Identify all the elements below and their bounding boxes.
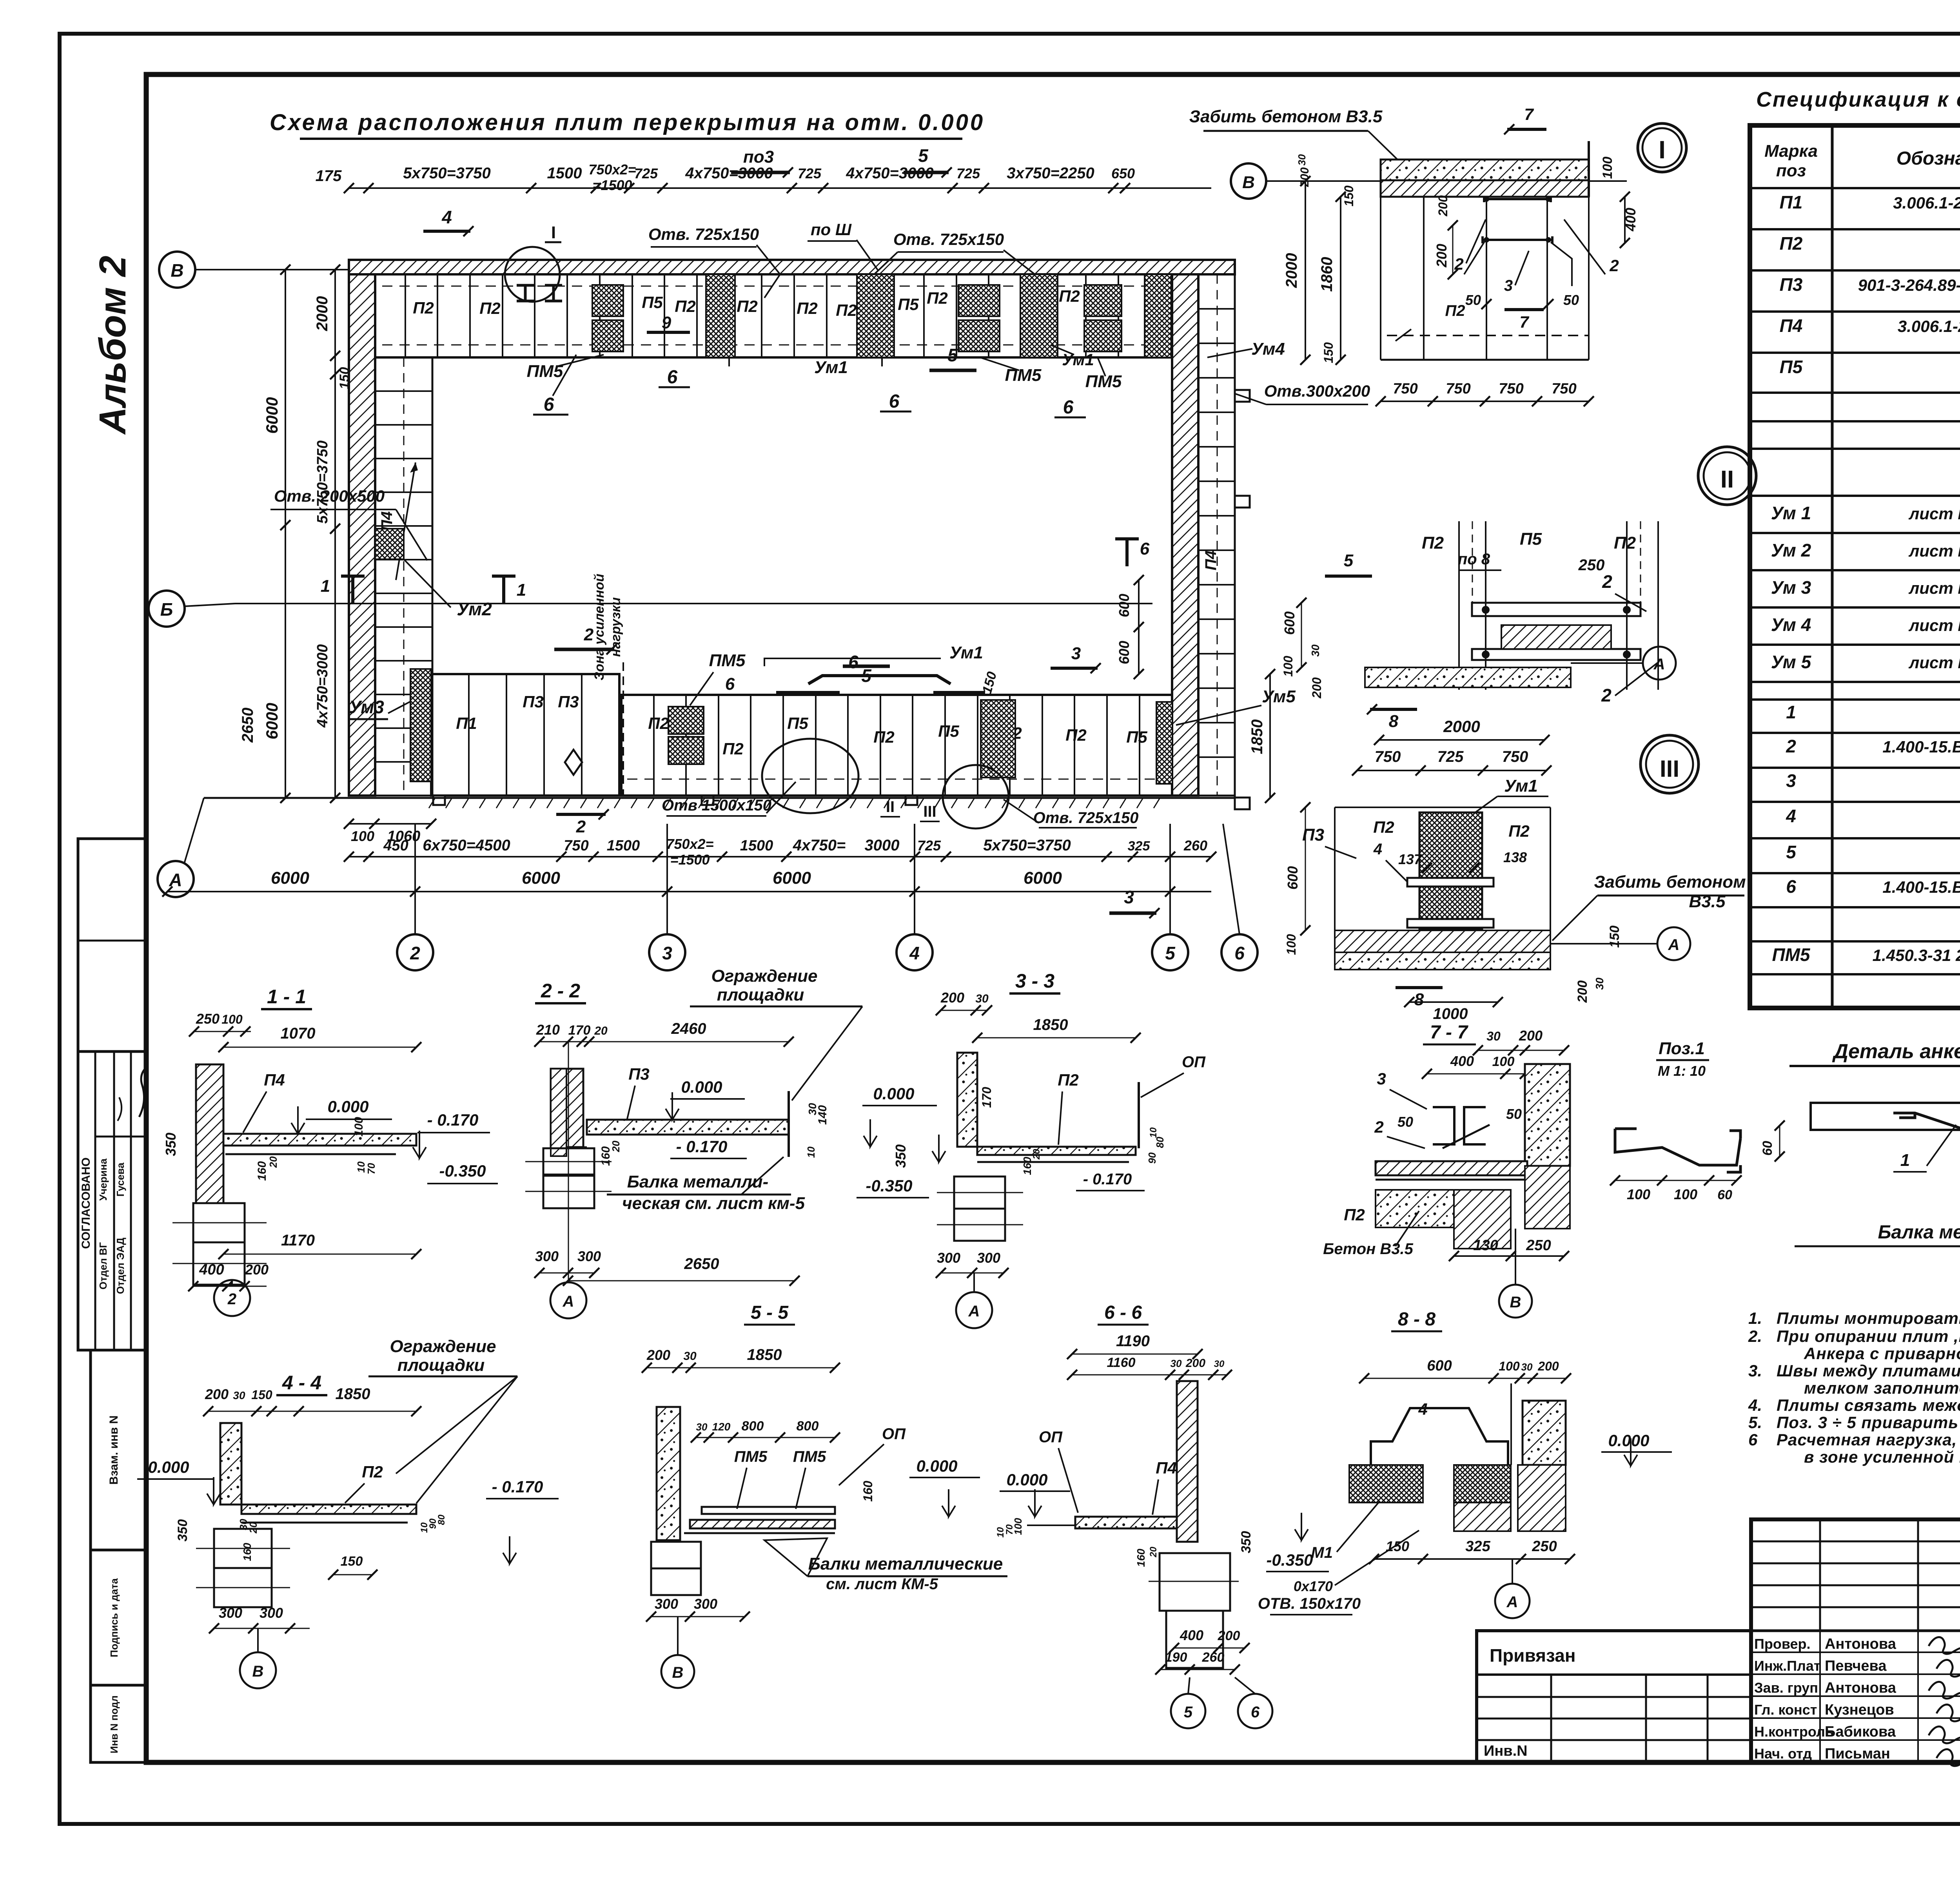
svg-text:мелком заполнителе.: мелком заполнителе. (1804, 1379, 1960, 1397)
detail III - axis circle А (1657, 927, 1690, 960)
section mark 1 mid (492, 576, 515, 604)
bracket 6 over П5 cell (808, 676, 951, 684)
svg-text:Ум 5: Ум 5 (1771, 652, 1812, 672)
svg-text:250: 250 (196, 1011, 220, 1027)
svg-text:П4: П4 (1780, 315, 1803, 336)
svg-text:0.000: 0.000 (873, 1084, 914, 1103)
svg-text:200: 200 (1185, 1357, 1205, 1370)
section 6-6 - axis circles 5 6 (1171, 1694, 1205, 1728)
svg-text:2 - 2: 2 - 2 (541, 980, 580, 1002)
svg-text:1500: 1500 (547, 165, 582, 182)
svg-text:2: 2 (1602, 571, 1612, 592)
svg-text:50: 50 (1506, 1106, 1522, 1122)
svg-text:Отв. 725х150: Отв. 725х150 (893, 230, 1004, 248)
svg-text:В: В (252, 1663, 264, 1680)
svg-text:ПМ5: ПМ5 (793, 1448, 826, 1465)
detail Поз.1 - dims (1615, 1180, 1737, 1181)
svg-text:Анкера с приварной их к: Анкера с приварной их к балкам согласно … (1804, 1344, 1960, 1363)
svg-text:Учерина: Учерина (97, 1158, 109, 1201)
svg-text:137: 137 (1398, 851, 1423, 867)
svg-text:4.: 4. (1748, 1396, 1762, 1414)
svg-text:I: I (551, 223, 556, 242)
svg-text:750: 750 (1446, 381, 1470, 397)
svg-text:750: 750 (1502, 748, 1528, 765)
svg-text:3.: 3. (1748, 1361, 1762, 1380)
svg-text:А: А (169, 870, 182, 890)
svg-text:3: 3 (662, 943, 672, 963)
svg-text:160: 160 (1135, 1548, 1147, 1567)
I-beam symbol near detail I (517, 285, 534, 301)
svg-text:см. лист КМ-5: см. лист КМ-5 (826, 1575, 938, 1593)
svg-text:1070: 1070 (281, 1025, 316, 1042)
axis circle 6 (1221, 934, 1258, 970)
svg-text:П2: П2 (675, 297, 696, 315)
svg-text:600: 600 (1116, 641, 1132, 664)
section mark 6 right wall (1115, 539, 1139, 566)
svg-text:210: 210 (536, 1022, 560, 1038)
svg-text:3.006.1-2.87.2-20: 3.006.1-2.87.2-20 (1893, 194, 1960, 212)
svg-text:В: В (672, 1664, 684, 1681)
svg-text:6: 6 (889, 391, 900, 412)
svg-text:100: 100 (1281, 656, 1295, 677)
plan - bottom band left part (431, 674, 619, 796)
svg-text:П3: П3 (628, 1065, 650, 1083)
svg-text:8: 8 (1414, 990, 1424, 1009)
svg-text:П5: П5 (1520, 529, 1542, 549)
section 7-7 - wall block (1525, 1064, 1570, 1166)
svg-text:П3: П3 (558, 692, 579, 711)
detail I - vertical edge lines (1380, 197, 1381, 360)
svg-text:П2: П2 (1780, 233, 1803, 254)
svg-text:0.000: 0.000 (681, 1078, 722, 1096)
section 7-7 - axis circle В (1499, 1285, 1532, 1318)
detail I - hatched slab band (1381, 160, 1589, 180)
svg-text:150: 150 (251, 1388, 272, 1402)
detail III - bottom dims (1409, 1001, 1498, 1003)
svg-text:ОП: ОП (1039, 1428, 1063, 1446)
detail I - bottom dim 750x4 (1381, 401, 1589, 402)
svg-text:901-3-264.89-КЖ.И.44.000: 901-3-264.89-КЖ.И.44.000 (1858, 276, 1960, 294)
svg-text:5: 5 (861, 665, 872, 686)
svg-text:2460: 2460 (671, 1020, 706, 1037)
svg-text:Забить бетоном: Забить бетоном (1594, 872, 1746, 892)
svg-text:6000: 6000 (263, 397, 281, 433)
svg-text:П2: П2 (1344, 1206, 1365, 1224)
svg-text:725: 725 (956, 165, 980, 181)
svg-text:20: 20 (1148, 1546, 1159, 1557)
svg-text:8: 8 (1389, 712, 1399, 731)
svg-text:Антонова: Антонова (1825, 1680, 1896, 1696)
svg-text:100: 100 (221, 1012, 243, 1026)
svg-text:300: 300 (655, 1596, 678, 1612)
svg-text:5: 5 (1184, 1704, 1193, 1721)
detail II - slab plates (1472, 603, 1641, 616)
detail III - channel bars (1407, 878, 1494, 886)
svg-text:160: 160 (241, 1543, 253, 1561)
svg-text:П2: П2 (1059, 287, 1080, 305)
svg-text:-0.350: -0.350 (439, 1162, 486, 1180)
svg-text:600: 600 (1281, 611, 1298, 635)
detail III - central monolithic column (1419, 812, 1482, 929)
svg-text:1160: 1160 (1107, 1355, 1135, 1370)
svg-text:1: 1 (517, 580, 526, 600)
svg-text:П2: П2 (737, 297, 758, 315)
svg-text:1190: 1190 (1116, 1332, 1150, 1350)
svg-text:3.006.1-2.87.2-7: 3.006.1-2.87.2-7 (1898, 317, 1960, 335)
title block - main frame (1751, 1519, 1960, 1762)
section 6-6 - foundation (1160, 1553, 1230, 1611)
section 1-1 - wall (196, 1064, 223, 1203)
svg-text:725: 725 (917, 838, 941, 854)
svg-text:Ум4: Ум4 (1251, 339, 1285, 359)
plan - bottom slab band (621, 695, 1172, 796)
detail III - outer lines (1334, 807, 1336, 952)
svg-text:750: 750 (564, 838, 588, 854)
svg-text:50: 50 (1563, 292, 1579, 308)
svg-text:10: 10 (1148, 1127, 1159, 1138)
axis Б interior line (235, 603, 1152, 604)
svg-text:ПМ5: ПМ5 (527, 362, 563, 381)
section 5-5 - axis circle В (661, 1655, 694, 1688)
section 3-3 - op post (1138, 1082, 1140, 1148)
svg-text:П2: П2 (413, 299, 434, 317)
anchor detail - slab bar (1811, 1103, 1960, 1130)
svg-text:Гл. конст: Гл. конст (1754, 1702, 1817, 1718)
svg-text:Ум 4: Ум 4 (1771, 615, 1811, 635)
svg-text:Балки металлические: Балки металлические (808, 1554, 1003, 1574)
svg-text:6: 6 (1748, 1430, 1758, 1449)
svg-text:1: 1 (1786, 702, 1796, 722)
section 7-7 - bottom dims (1454, 1255, 1564, 1257)
svg-text:30: 30 (1521, 1361, 1533, 1373)
section 2-2 - op post (788, 1091, 790, 1157)
roman I detail circle (1638, 123, 1686, 172)
svg-text:50: 50 (1465, 292, 1481, 308)
svg-text:2: 2 (1374, 1118, 1383, 1136)
plan bottom dimension chain 2 (349, 856, 1211, 857)
section 1-1 - axis circle 2 (214, 1280, 250, 1316)
svg-text:П2: П2 (1065, 726, 1087, 744)
svg-text:П2: П2 (1058, 1071, 1079, 1089)
svg-text:лист КЖ-44: лист КЖ-44 (1908, 504, 1960, 523)
detail II - label 5 (1325, 575, 1372, 578)
svg-text:ОП: ОП (1182, 1053, 1206, 1071)
svg-text:Зона усиленной: Зона усиленной (592, 574, 607, 681)
svg-text:30: 30 (683, 1350, 697, 1363)
svg-text:ПМ5: ПМ5 (1005, 366, 1042, 385)
svg-text:750: 750 (1375, 748, 1401, 765)
svg-text:100: 100 (351, 828, 374, 844)
svg-text:30: 30 (233, 1389, 245, 1401)
svg-text:Отв 1500х150: Отв 1500х150 (662, 797, 771, 814)
svg-text:4: 4 (1373, 841, 1382, 858)
svg-text:Ум1: Ум1 (949, 643, 983, 662)
svg-text:5х750=3750: 5х750=3750 (314, 441, 331, 524)
section 2-2 - foundation (543, 1148, 594, 1175)
svg-text:800: 800 (742, 1419, 764, 1434)
svg-text:70: 70 (365, 1163, 377, 1174)
detail II - vertical lines (1458, 521, 1460, 690)
detail I - section marks 7 (1507, 128, 1546, 131)
section 8-8 - wall stipple (1523, 1401, 1566, 1465)
svg-text:350: 350 (1239, 1531, 1254, 1554)
svg-text:Поз. 3 ÷ 5 приварить к за: Поз. 3 ÷ 5 приварить к закладным деталям (1777, 1413, 1960, 1432)
section 7-7 - lower blocks (1376, 1190, 1489, 1227)
svg-text:750х2=: 750х2= (666, 836, 713, 852)
section 3-3 - foundation (954, 1177, 1005, 1209)
svg-text:П2: П2 (1422, 533, 1444, 553)
svg-text:2650: 2650 (239, 708, 256, 743)
svg-text:2: 2 (227, 1291, 236, 1308)
detail circles on bottom band (762, 739, 858, 813)
svg-text:200: 200 (1298, 167, 1311, 187)
section 3-3 - wall (957, 1053, 977, 1147)
section mark по3 (731, 171, 790, 174)
svg-text:Отв.300х200: Отв.300х200 (1264, 382, 1370, 400)
svg-text:Ограждение: Ограждение (390, 1337, 496, 1356)
svg-text:П2: П2 (479, 299, 501, 317)
svg-text:6000: 6000 (522, 868, 560, 888)
section 1-1 - foundation blocks (193, 1203, 245, 1242)
svg-text:150: 150 (341, 1554, 363, 1569)
section mark 3 right of plan (1109, 912, 1156, 915)
spec table column lines (1831, 125, 1834, 1008)
svg-text:4х750=3000: 4х750=3000 (314, 644, 331, 728)
svg-text:400: 400 (1622, 208, 1639, 232)
svg-text:ПМ5: ПМ5 (1085, 372, 1122, 391)
svg-text:П2: П2 (927, 289, 948, 307)
svg-text:лист КЖ-44: лист КЖ-44 (1908, 542, 1960, 560)
svg-text:П5: П5 (898, 295, 919, 314)
svg-text:А: А (563, 1293, 574, 1310)
svg-text:1: 1 (1900, 1151, 1910, 1170)
svg-text:0.000: 0.000 (1608, 1431, 1649, 1450)
svg-text:175: 175 (316, 167, 342, 185)
svg-text:ПМ5: ПМ5 (1772, 944, 1811, 965)
svg-text:190: 190 (1165, 1650, 1187, 1665)
monolithic cell Ум1 bottom (981, 700, 1015, 778)
svg-text:П4: П4 (1202, 550, 1220, 570)
svg-text:Отдел ВГ: Отдел ВГ (97, 1242, 109, 1289)
section 6-6 - slab (1075, 1517, 1177, 1528)
svg-text:325: 325 (1465, 1538, 1490, 1555)
svg-text:- 0.170: - 0.170 (1083, 1171, 1132, 1188)
svg-text:П3: П3 (1780, 274, 1803, 295)
svg-text:2: 2 (584, 625, 594, 644)
svg-text:200: 200 (1434, 244, 1450, 268)
svg-text:1.400-15.В1. 540-01: 1.400-15.В1. 540-01 (1882, 878, 1960, 896)
svg-text:Н.контроль: Н.контроль (1754, 1724, 1834, 1740)
svg-text:200: 200 (940, 990, 964, 1006)
svg-text:0х170: 0х170 (1294, 1578, 1333, 1594)
svg-text:100: 100 (1499, 1359, 1520, 1373)
svg-text:3 - 3: 3 - 3 (1015, 970, 1054, 992)
svg-text:А: А (1653, 656, 1665, 673)
spec table row lines (1750, 187, 1960, 189)
svg-text:Ум1: Ум1 (814, 358, 848, 377)
svg-text:300: 300 (260, 1605, 283, 1621)
svg-text:1850: 1850 (1249, 720, 1266, 754)
svg-text:250: 250 (1526, 1237, 1551, 1254)
plan - left wall (349, 274, 375, 796)
svg-text:5: 5 (1786, 842, 1797, 862)
section 3-3 - slab (977, 1147, 1136, 1155)
axis circle В (159, 252, 195, 288)
section mark 2 bottom (556, 813, 606, 816)
svg-text:Швы между плитами тщательн: Швы между плитами тщательно забить бетон… (1777, 1361, 1960, 1380)
svg-text:5: 5 (1165, 943, 1176, 963)
section mark 2 above П1-П3 box (554, 648, 614, 651)
svg-text:Подпись и дата: Подпись и дата (108, 1578, 120, 1657)
svg-text:750: 750 (1393, 381, 1417, 397)
svg-text:6000: 6000 (271, 868, 309, 888)
plan - top slab band (373, 274, 1172, 357)
svg-text:100: 100 (1627, 1186, 1650, 1202)
pm5 hatch cells in top band (592, 285, 623, 316)
svg-text:Нач. отд: Нач. отд (1754, 1746, 1812, 1762)
svg-text:200: 200 (1519, 1028, 1543, 1044)
svg-text:Привязан: Привязан (1490, 1645, 1576, 1666)
svg-text:20: 20 (610, 1140, 622, 1152)
svg-text:П1: П1 (1780, 192, 1803, 212)
svg-text:150: 150 (1321, 342, 1336, 363)
svg-text:7: 7 (1524, 105, 1534, 123)
section mark 5 top (904, 171, 949, 174)
empty stamp box upper (78, 839, 145, 1051)
svg-text:Обозначение: Обозначение (1896, 148, 1960, 169)
arrow on left slab column (396, 462, 416, 580)
dim 1850 right of plan (1269, 674, 1271, 798)
section 4-4 - wall (220, 1423, 241, 1505)
svg-text:Поз.1: Поз.1 (1659, 1039, 1705, 1058)
svg-text:138: 138 (1503, 849, 1527, 865)
svg-text:20: 20 (1031, 1149, 1042, 1160)
svg-text:2000: 2000 (1283, 253, 1300, 288)
svg-text:Инж.Плат: Инж.Плат (1754, 1658, 1821, 1674)
svg-text:100: 100 (1600, 157, 1615, 179)
detail I - dimension chains left (1305, 181, 1306, 360)
monolithic cell Ум3 (410, 669, 431, 781)
svg-text:4х750=3000: 4х750=3000 (846, 165, 934, 182)
svg-text:200: 200 (1575, 981, 1590, 1003)
svg-text:=1500: =1500 (592, 177, 632, 193)
svg-text:1000: 1000 (1433, 1005, 1468, 1022)
svg-text:6 - 6: 6 - 6 (1104, 1302, 1142, 1323)
svg-text:Инв.N: Инв.N (1484, 1743, 1528, 1759)
svg-text:1170: 1170 (281, 1232, 315, 1249)
svg-text:30: 30 (975, 992, 989, 1005)
approval stamp box СОГЛАСОВАНО (78, 1051, 145, 1350)
svg-text:поз: поз (1776, 161, 1806, 180)
svg-text:750: 750 (1552, 381, 1576, 397)
svg-text:1.450.3-31 2.1.1.0.0-07: 1.450.3-31 2.1.1.0.0-07 (1873, 946, 1960, 964)
svg-text:600: 600 (1427, 1358, 1452, 1374)
svg-text:Гусева: Гусева (114, 1162, 126, 1196)
section 2-2 - axis circle А (550, 1282, 586, 1318)
svg-text:1860: 1860 (1318, 257, 1336, 292)
detail I - axis circle В (1231, 163, 1266, 199)
svg-text:400: 400 (199, 1262, 224, 1278)
svg-text:6: 6 (1140, 539, 1150, 558)
svg-text:200: 200 (245, 1262, 269, 1278)
svg-text:1850: 1850 (336, 1385, 370, 1403)
stipple under band bottom (429, 798, 435, 808)
svg-text:650: 650 (1111, 165, 1135, 181)
svg-text:Провер.: Провер. (1754, 1636, 1811, 1652)
svg-text:800: 800 (797, 1419, 819, 1434)
svg-text:6: 6 (725, 674, 735, 694)
svg-text:Инв N подл: Инв N подл (108, 1695, 120, 1753)
plan - left slab column П4 (375, 357, 432, 796)
section 8-8 - hat profile (1371, 1408, 1508, 1465)
svg-text:2: 2 (410, 943, 420, 963)
svg-text:150: 150 (1386, 1538, 1409, 1554)
svg-text:П5: П5 (642, 293, 663, 312)
svg-text:лист КЖ-44: лист КЖ-44 (1908, 579, 1960, 597)
svg-text:2: 2 (1601, 685, 1612, 705)
section 4-4 - foundation (214, 1529, 272, 1568)
svg-text:725: 725 (634, 165, 658, 181)
svg-text:Деталь анкеровки плит: Деталь анкеровки плит (1832, 1040, 1960, 1063)
section mark 4 top-left (423, 230, 470, 233)
svg-text:П2: П2 (362, 1463, 383, 1481)
svg-text:2000: 2000 (1443, 717, 1480, 736)
svg-text:30: 30 (1214, 1359, 1225, 1369)
section 4-4 - axis circle В (240, 1652, 276, 1688)
axis circle 2 (397, 934, 433, 970)
svg-text:4: 4 (1418, 1400, 1427, 1418)
svg-text:5: 5 (947, 345, 958, 365)
svg-text:Ум2: Ум2 (457, 599, 492, 619)
detail II - axis circle А (1643, 647, 1676, 680)
svg-text:П4: П4 (1156, 1459, 1177, 1477)
embed plates on right wall (1235, 390, 1250, 402)
stamp box Взам. инв.N (91, 1350, 145, 1550)
svg-text:Расчетная нагрузка, на пере: Расчетная нагрузка, на перекрытие (1777, 1430, 1960, 1449)
plan - top wall band (349, 260, 1235, 274)
svg-text:1.: 1. (1748, 1309, 1762, 1327)
svg-text:250: 250 (1532, 1538, 1557, 1555)
svg-text:9: 9 (662, 313, 671, 332)
svg-text:Балка металлическая: Балка металлическая (1878, 1222, 1960, 1243)
svg-text:III: III (1660, 756, 1679, 782)
svg-text:- 0.170: - 0.170 (427, 1111, 479, 1129)
svg-text:4: 4 (441, 207, 452, 227)
svg-text:3: 3 (1377, 1070, 1386, 1088)
svg-text:725: 725 (1437, 748, 1464, 765)
svg-text:П5: П5 (938, 722, 959, 740)
svg-text:ОТВ. 150х170: ОТВ. 150х170 (1258, 1595, 1361, 1612)
spec table frame (1750, 125, 1960, 1008)
svg-text:120: 120 (712, 1421, 731, 1433)
svg-text:1: 1 (321, 576, 330, 596)
svg-text:Ум 3: Ум 3 (1771, 577, 1811, 598)
axis circle 5 (1152, 934, 1188, 970)
svg-text:Отдел ЭАД: Отдел ЭАД (114, 1237, 126, 1294)
svg-text:-0.350: -0.350 (1266, 1551, 1313, 1569)
svg-text:100: 100 (352, 1117, 365, 1137)
svg-text:В: В (1242, 173, 1255, 192)
svg-text:ОП: ОП (882, 1425, 906, 1443)
svg-text:300: 300 (977, 1250, 1000, 1266)
svg-text:6: 6 (1063, 397, 1074, 418)
right wall dims 600 600 (1138, 580, 1140, 674)
svg-text:6: 6 (1234, 943, 1245, 963)
svg-text:П5: П5 (787, 714, 808, 732)
svg-text:П2: П2 (648, 714, 669, 732)
plan bottom dimension chain 1 (349, 823, 431, 825)
svg-text:20: 20 (267, 1156, 279, 1168)
